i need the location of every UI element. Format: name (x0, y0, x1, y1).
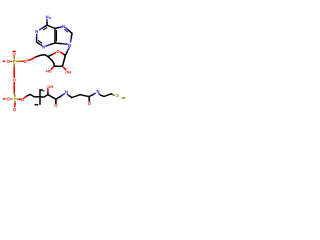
minus left of P2 left O (3, 98, 6, 99)
P2 bond right to ester O (17, 98, 20, 100)
P2 bond left to O (11, 98, 12, 100)
bond N9-C4 (61, 43, 67, 46)
svg-text:OH: OH (65, 70, 71, 74)
bond C2=N3 (37, 42, 40, 44)
bond C6=N1 (43, 25, 48, 28)
bond C1'-O4' (63, 54, 65, 56)
bond C5-N7 (55, 27, 59, 28)
svg-text:OH: OH (47, 84, 53, 89)
P2 bond down to O (14, 101, 16, 103)
svg-text:N: N (46, 15, 49, 20)
bond C4'-C5' (45, 55, 48, 57)
bond CH2c-CH2d (104, 94, 111, 97)
thiol H (122, 97, 125, 99)
bond O5'-P1 (21, 60, 23, 62)
bond CH-OH (47, 91, 49, 94)
bond N9-C1' (67, 48, 69, 52)
bond CH2d-S (111, 93, 113, 96)
svg-text:HO: HO (46, 70, 52, 74)
bond C3'-O3' (51, 67, 53, 69)
minus above P1 top O (13, 51, 16, 52)
bond C1=O1 (55, 100, 57, 103)
bond C4=C5 (54, 28, 56, 43)
svg-text:N: N (62, 24, 65, 29)
minus left of P1 left O (3, 61, 6, 62)
P1 bond left to O (11, 60, 12, 62)
svg-text:N: N (96, 89, 99, 94)
bond C4'-C3' (48, 57, 54, 67)
bond C5-C6 (47, 25, 55, 28)
bond C2'-C1' (63, 56, 66, 67)
bond CH2b-C(=O)2 (80, 95, 89, 97)
bond O4'-C4' (52, 53, 56, 55)
bond N2-CH2c (99, 94, 101, 95)
methyl label top (39, 89, 43, 91)
bond N3-C4 (46, 45, 51, 47)
bond C1-N1amide (56, 95, 62, 99)
svg-text:P: P (13, 59, 16, 64)
bond CH-C(=O)1 (48, 95, 56, 100)
bond C8-N9 (70, 33, 73, 38)
bond C2'-O2' (64, 68, 66, 70)
bridge O to P2 (13, 83, 15, 94)
svg-text:S: S (116, 93, 119, 98)
bond Cq-CH(OH) (40, 95, 48, 98)
bond C2=O2 (88, 98, 90, 101)
P1 bond up to O (13, 56, 15, 59)
bond C5'-O5' (35, 55, 45, 57)
svg-text:N: N (65, 90, 68, 95)
bond C3'-C2' (54, 65, 62, 67)
svg-text:N: N (42, 45, 45, 50)
P1 bond down to bridge O (13, 64, 15, 68)
svg-text:P: P (14, 97, 17, 102)
Cq methyl stubs vertical (39, 90, 41, 104)
bond N7=C8 (66, 28, 69, 31)
bond CH2-Cq (30, 94, 40, 97)
bond Oe2-CH2 (24, 96, 27, 98)
bond CH2a-CH2b (72, 95, 80, 98)
svg-text:N: N (68, 43, 71, 48)
bond C2-N2amide (89, 95, 93, 97)
bond N1-C2 (36, 34, 38, 38)
svg-text:N: N (35, 29, 38, 34)
bond N1-CH2a (67, 94, 69, 95)
methyl label bottom (35, 104, 39, 106)
bond NH2-C6 (46, 20, 48, 23)
